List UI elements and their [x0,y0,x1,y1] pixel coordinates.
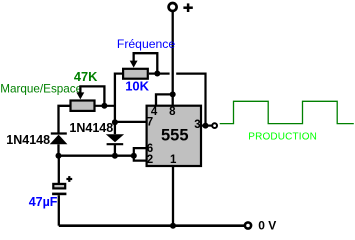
capacitor C1 negative plate [52,193,66,196]
wire P1 right terminal [149,72,157,74]
wire pin 1 to ground rail [172,167,174,226]
diode D2 cathode bar [107,143,124,145]
wire ground rail [59,224,244,227]
wire D2 bottom down to node [114,144,116,156]
node junction pins 2-6 tie [131,153,137,159]
diode D1 cathode bar [51,132,67,134]
wire P2 right terminal [95,105,115,107]
wire pin 3 output stub [201,124,212,126]
svg-text:47µF: 47µF [29,195,58,209]
capacitor C1 positive plate [53,184,65,189]
wire P1 left terminal [115,72,123,74]
node junction capacitor / D1 [56,153,62,159]
node junction D2 / timing wire [112,153,118,159]
node junction P1 right / wiper [154,71,160,77]
svg-text:10K: 10K [125,79,149,94]
diode D1 triangle [50,135,68,145]
svg-text:3: 3 [194,119,200,131]
wire pins 2-6 bracket [134,148,147,161]
potentiometer P2 47K body [71,101,95,111]
svg-text:1N4148: 1N4148 [69,121,113,135]
node junction pin 7 / D2 [112,119,118,125]
svg-text:6: 6 [147,143,153,155]
wire D1 anode down to node [57,144,59,156]
svg-text:7: 7 [147,116,153,128]
wire vertical bus P1-left / P2-right / pin 7 [114,73,116,123]
waveform square wave [220,101,354,123]
terminal 0V [245,222,251,228]
wire P1 to output, right of crossing down to pin 3 [176,74,205,126]
op-amp U1 555 timer body [147,106,201,166]
svg-text:555: 555 [161,127,189,145]
capacitor C1 bottom lead [58,195,60,226]
node junction pin 1 / ground rail [170,223,176,229]
capacitor C1 top lead [58,156,60,183]
potentiometer P2 wiper arrow [76,92,84,99]
node junction P2 right / wiper [101,103,107,109]
terminal +V [169,3,193,12]
wire P2 wiper loop [80,86,104,105]
potentiometer P1 10K body [123,69,148,79]
wire supply to pin 4 [156,94,173,105]
svg-text:0 V: 0 V [258,219,276,233]
wire pin 7 [115,121,147,123]
diode D2 triangle [106,134,124,142]
wire P2 left terminal down to D1 [59,106,71,133]
wire timing node horizontal [59,155,134,157]
node junction at pins 4/8 supply [170,91,176,97]
wire D2 top from pin7 node [114,122,116,134]
potentiometer P1 wiper arrow [130,61,138,68]
capacitor C1 polarity plus [66,176,72,182]
svg-text:Fréquence: Fréquence [117,37,175,51]
wire +V vertical rail [172,12,174,96]
node junction pin 3 [203,123,209,129]
terminal output pin 3 [212,123,217,128]
svg-text:2: 2 [147,154,153,166]
wire supply to pin 8 [172,94,174,105]
svg-text:PRODUCTION: PRODUCTION [248,131,317,142]
svg-text:Marque/Espace: Marque/Espace [0,82,82,95]
svg-text:1N4148: 1N4148 [6,133,50,147]
svg-text:1: 1 [170,154,177,166]
wire P1 to output, left of crossing [157,72,169,74]
svg-text:8: 8 [169,106,176,118]
wire P1 wiper loop [134,53,158,73]
